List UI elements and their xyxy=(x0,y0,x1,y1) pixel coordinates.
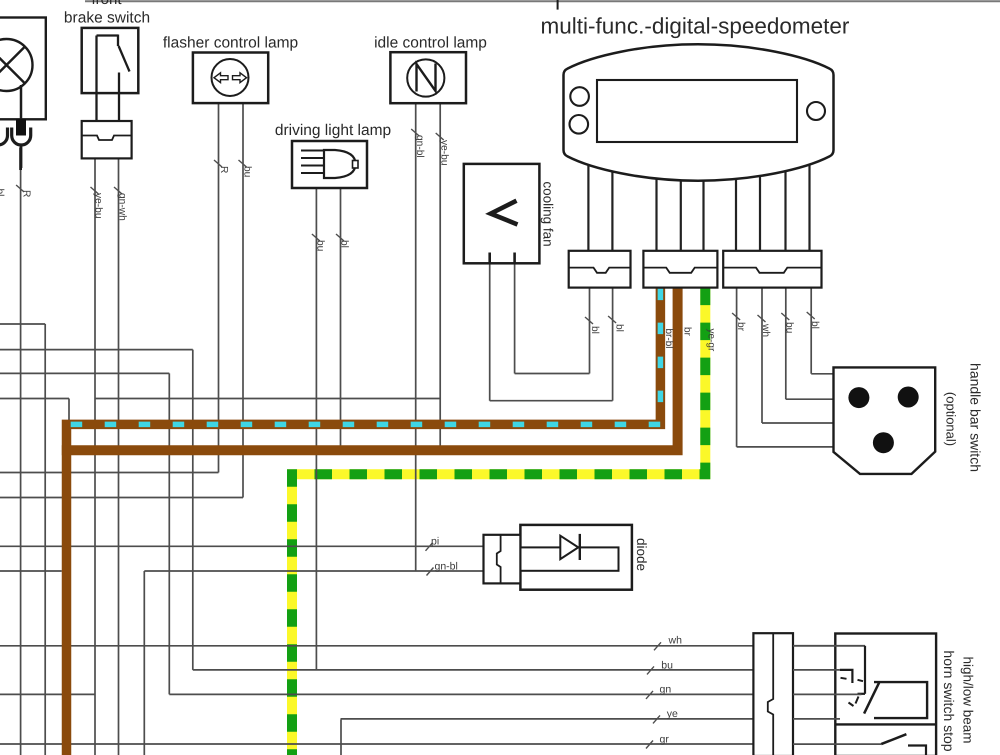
svg-text:bu: bu xyxy=(784,322,795,333)
svg-text:ye-gr: ye-gr xyxy=(706,329,717,352)
svg-text:pi: pi xyxy=(431,536,439,548)
svg-text:(optional): (optional) xyxy=(944,392,959,446)
svg-text:multi-func.-digital-speedomete: multi-func.-digital-speedometer xyxy=(541,14,850,39)
svg-text:wh: wh xyxy=(760,323,771,337)
svg-text:wh: wh xyxy=(668,635,683,647)
svg-text:R: R xyxy=(21,190,32,197)
svg-text:idle control lamp: idle control lamp xyxy=(374,35,487,52)
svg-text:diode: diode xyxy=(634,538,649,571)
svg-text:gn: gn xyxy=(660,684,672,696)
svg-text:high/low beam: high/low beam xyxy=(961,656,976,743)
svg-text:br: br xyxy=(682,327,693,337)
svg-text:bl: bl xyxy=(614,324,625,332)
svg-text:bu: bu xyxy=(242,166,253,177)
svg-text:brake switch: brake switch xyxy=(64,10,150,27)
svg-text:ye-bu: ye-bu xyxy=(93,193,104,218)
svg-text:br: br xyxy=(735,322,746,332)
svg-text:driving light lamp: driving light lamp xyxy=(275,122,391,139)
svg-text:horn switch stop: horn switch stop xyxy=(941,650,957,751)
svg-text:gn-bl: gn-bl xyxy=(414,135,425,158)
svg-text:ye-bu: ye-bu xyxy=(438,140,449,165)
svg-text:front: front xyxy=(91,0,122,8)
svg-text:bl: bl xyxy=(809,321,820,329)
svg-text:cooling fan: cooling fan xyxy=(541,181,556,246)
svg-text:br-bl: br-bl xyxy=(663,329,674,349)
svg-text:gr: gr xyxy=(660,733,670,745)
svg-text:handle bar switch: handle bar switch xyxy=(968,363,984,472)
svg-text:bu: bu xyxy=(315,240,326,251)
svg-text:bu: bu xyxy=(661,659,673,671)
svg-text:gn-bl: gn-bl xyxy=(435,561,458,573)
svg-text:gn-wh: gn-wh xyxy=(117,193,128,221)
svg-text:bl: bl xyxy=(0,189,5,197)
svg-text:bl: bl xyxy=(589,326,600,334)
svg-text:flasher control lamp: flasher control lamp xyxy=(163,35,298,52)
svg-text:R: R xyxy=(218,166,229,173)
svg-text:bl: bl xyxy=(339,240,350,248)
svg-text:ye: ye xyxy=(667,708,678,720)
